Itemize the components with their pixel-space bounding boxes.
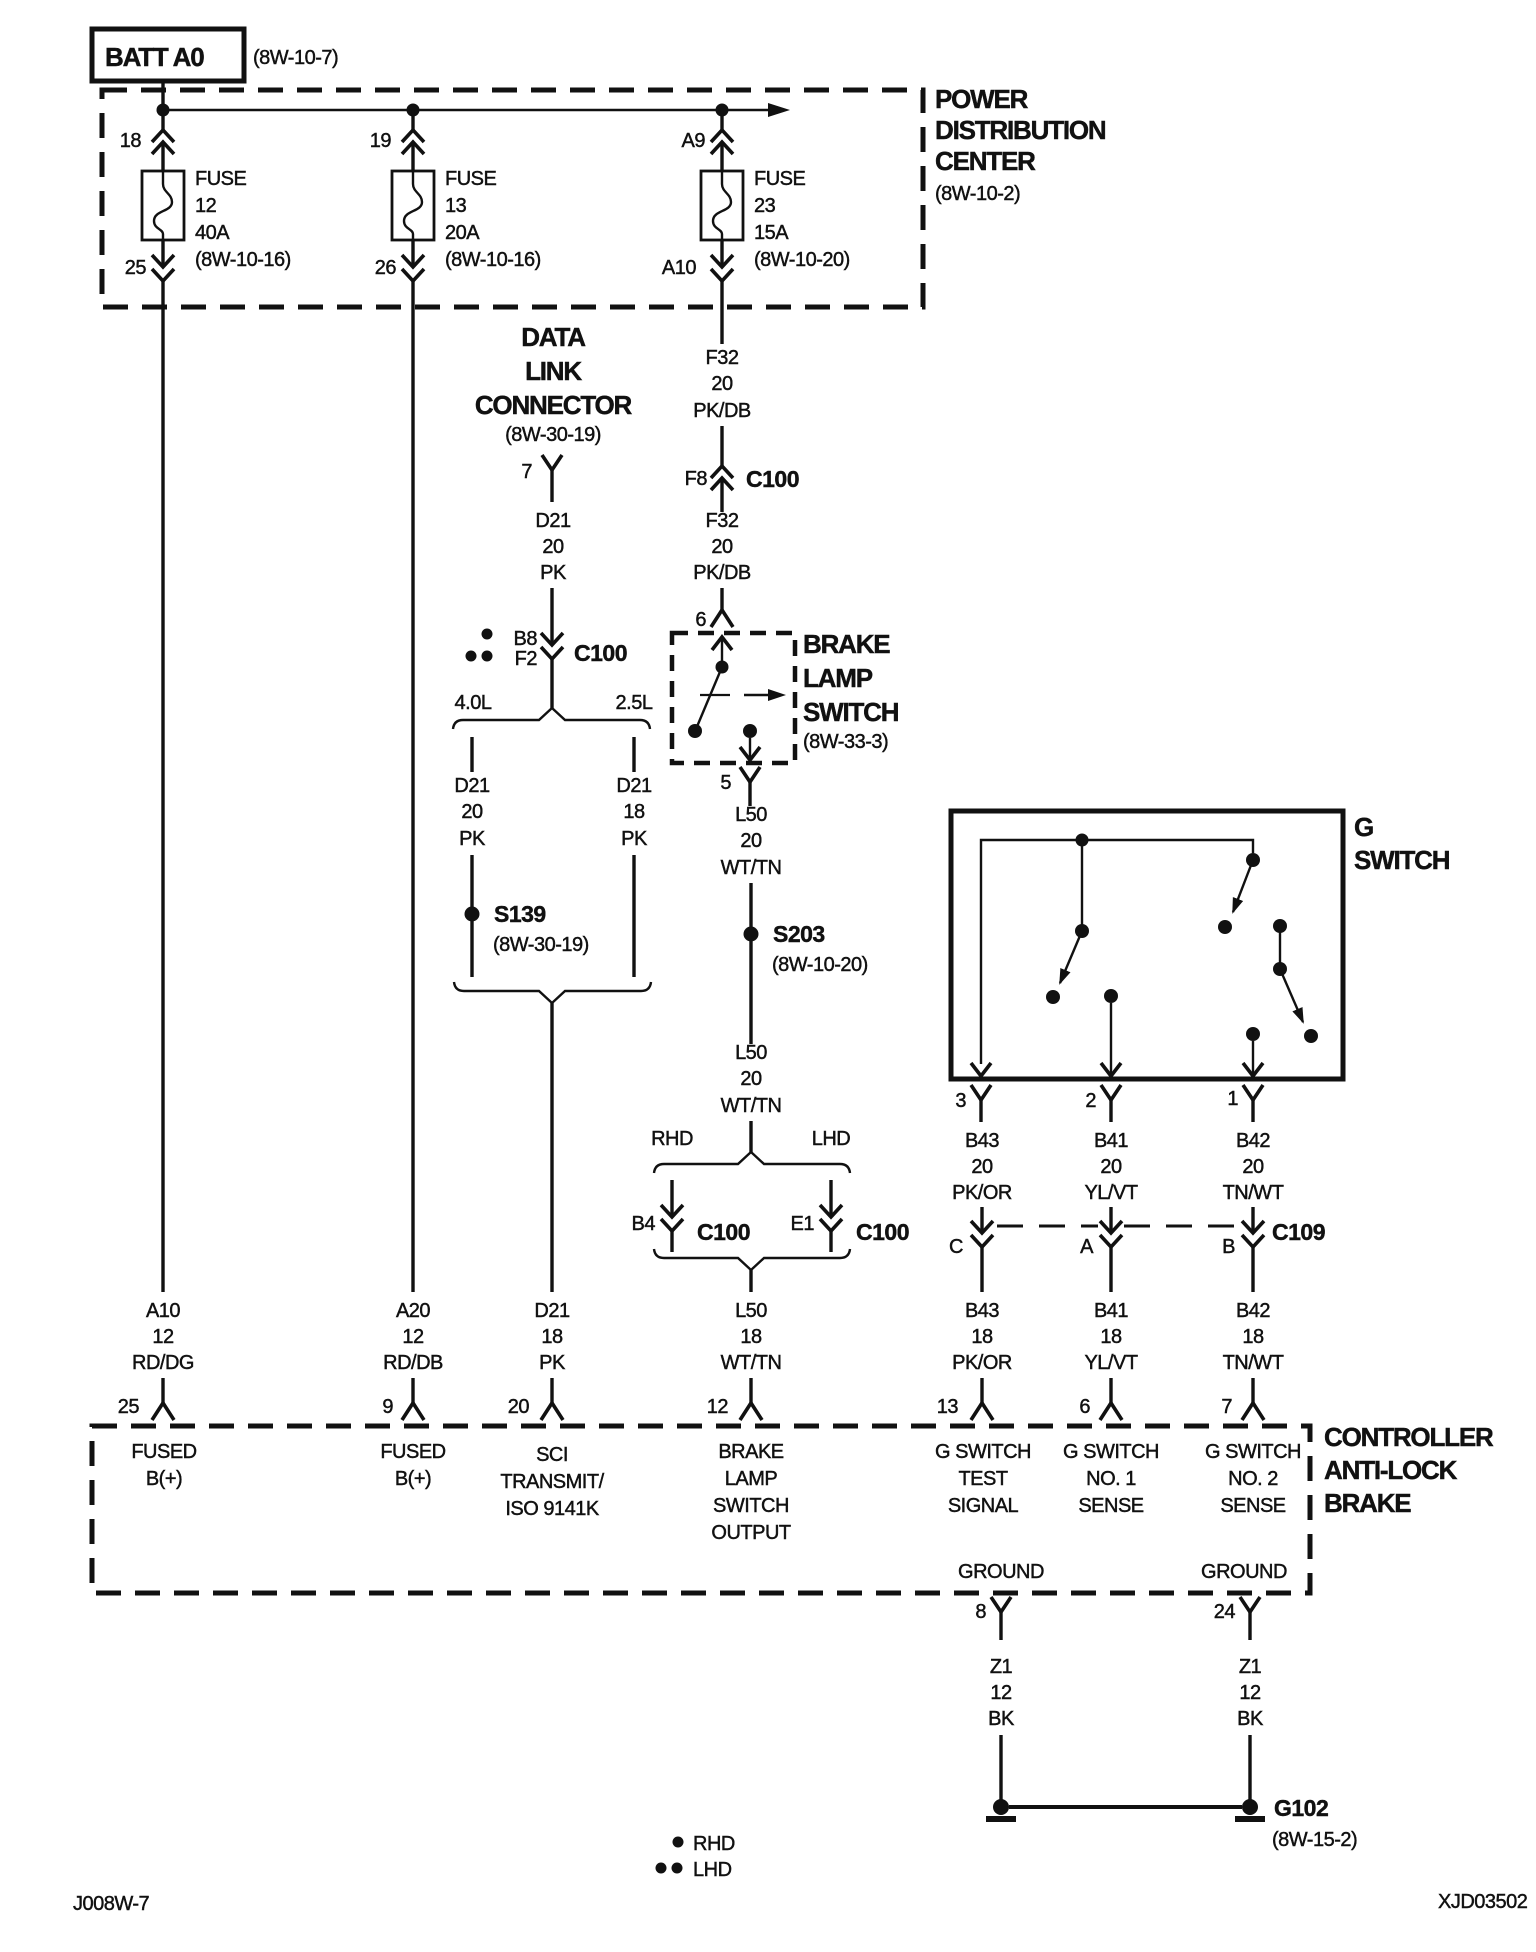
svg-text:B41: B41 — [1094, 1130, 1128, 1152]
wire label D21 18 PK (2.5L) — [616, 775, 652, 850]
junction node at fuse 12 — [157, 104, 170, 117]
G switch internal bus wire — [981, 840, 1253, 1064]
svg-text:2: 2 — [1085, 1090, 1096, 1112]
RHD/LHD merge brace — [654, 1249, 850, 1270]
splice S139 — [465, 901, 589, 956]
switch 2 blade arrow — [1233, 860, 1253, 912]
pin function fused B(+) col 2 — [380, 1441, 445, 1490]
wire label D21 20 PK — [535, 510, 571, 584]
wire — [720, 478, 723, 512]
svg-text:PK: PK — [621, 828, 648, 850]
RHD/LHD split brace — [654, 1152, 850, 1173]
brake lamp switch pin 6 — [695, 609, 733, 631]
svg-text:20A: 20A — [445, 222, 480, 244]
svg-text:WT/TN: WT/TN — [721, 857, 782, 879]
svg-text:NO. 1: NO. 1 — [1086, 1468, 1136, 1490]
svg-text:CONTROLLER: CONTROLLER — [1324, 1422, 1494, 1452]
wire to pin 2 — [1101, 1003, 1121, 1076]
wire — [980, 1247, 983, 1292]
CONTROLLER ANTI-LOCK BRAKE label — [1324, 1422, 1494, 1518]
wire — [749, 883, 752, 927]
wire — [411, 142, 414, 171]
controller pin 13 — [937, 1396, 993, 1420]
svg-text:BRAKE: BRAKE — [803, 629, 890, 659]
svg-text:5: 5 — [720, 772, 731, 794]
svg-text:15A: 15A — [754, 222, 789, 244]
G switch box — [951, 811, 1343, 1079]
brake lamp switch dashed box — [672, 633, 795, 763]
switch common contact — [716, 661, 729, 674]
G switch pin 3 — [955, 1085, 991, 1122]
svg-text:(8W-15-2): (8W-15-2) — [1272, 1829, 1357, 1851]
svg-text:7: 7 — [1221, 1396, 1232, 1418]
svg-text:G SWITCH: G SWITCH — [1205, 1441, 1301, 1463]
wire — [1081, 840, 1083, 931]
svg-text:RHD: RHD — [651, 1128, 693, 1150]
svg-text:18: 18 — [1242, 1326, 1264, 1348]
switch actuation arrow — [744, 689, 786, 701]
svg-text:23: 23 — [754, 195, 776, 217]
svg-text:25: 25 — [118, 1396, 140, 1418]
svg-text:LHD: LHD — [812, 1128, 851, 1150]
svg-text:18: 18 — [1100, 1326, 1122, 1348]
pin function G switch no.2 sense — [1205, 1441, 1301, 1517]
junction node at fuse 23 — [716, 104, 729, 117]
svg-text:12: 12 — [402, 1326, 424, 1348]
svg-text:18: 18 — [740, 1326, 762, 1348]
svg-text:CENTER: CENTER — [935, 146, 1036, 176]
wire fused B(+) column 2 — [411, 281, 414, 1292]
svg-text:(8W-10-16): (8W-10-16) — [195, 249, 291, 271]
power distribution center dashed box — [102, 90, 923, 307]
wire — [749, 941, 752, 1044]
controller pin 12 — [707, 1396, 762, 1420]
svg-text:A20: A20 — [396, 1300, 430, 1322]
svg-text:FUSE: FUSE — [445, 168, 497, 190]
DLC pin 7 — [521, 455, 562, 502]
wire — [749, 1121, 752, 1152]
svg-text:BATT A0: BATT A0 — [105, 42, 204, 72]
svg-text:B(+): B(+) — [395, 1468, 431, 1490]
wire label F32 20 PK/DB (lower) — [693, 510, 751, 584]
svg-text:C109: C109 — [1272, 1219, 1325, 1245]
wire 2.5L branch — [632, 737, 635, 772]
junction node in G switch — [1076, 834, 1089, 847]
wire label B42 18 TN/WT — [1223, 1300, 1284, 1374]
engine merge brace — [454, 982, 651, 1003]
svg-text:(8W-33-3): (8W-33-3) — [803, 731, 888, 753]
svg-text:PK/DB: PK/DB — [693, 400, 751, 422]
wire label B41 20 YL/VT — [1084, 1130, 1137, 1204]
svg-text:L50: L50 — [735, 1042, 767, 1064]
wire to pin 1 — [1243, 1041, 1263, 1076]
engine split brace — [453, 708, 650, 729]
svg-text:A: A — [1080, 1236, 1094, 1258]
svg-text:13: 13 — [937, 1396, 959, 1418]
svg-text:C100: C100 — [574, 640, 627, 666]
svg-text:B42: B42 — [1236, 1130, 1270, 1152]
controller pin 6 — [1079, 1396, 1122, 1420]
svg-text:18: 18 — [971, 1326, 993, 1348]
svg-text:18: 18 — [541, 1326, 563, 1348]
wire — [720, 588, 723, 610]
svg-text:BK: BK — [1237, 1708, 1264, 1730]
svg-text:PK/OR: PK/OR — [952, 1182, 1012, 1204]
connector C100 pins B8/F2 — [514, 628, 627, 670]
connector C109 pin C — [949, 1221, 993, 1258]
svg-text:3: 3 — [955, 1090, 966, 1112]
svg-text:SENSE: SENSE — [1220, 1495, 1285, 1517]
fuse 13 label — [445, 168, 541, 271]
wire LHD branch — [829, 1180, 832, 1217]
G SWITCH label — [1354, 812, 1450, 875]
switch 3 blade arrow — [1280, 969, 1303, 1022]
svg-text:LAMP: LAMP — [803, 663, 873, 693]
wire — [411, 1378, 414, 1403]
svg-text:25: 25 — [125, 257, 147, 279]
connector C109 pin A — [1080, 1221, 1122, 1258]
splice S203 — [744, 921, 868, 976]
svg-text:L50: L50 — [735, 804, 767, 826]
svg-text:B41: B41 — [1094, 1300, 1128, 1322]
svg-text:PK: PK — [540, 562, 567, 584]
wire — [1251, 1247, 1254, 1292]
svg-text:A10: A10 — [662, 257, 696, 279]
svg-text:G SWITCH: G SWITCH — [1063, 1441, 1159, 1463]
fuse 12 label — [195, 168, 291, 271]
svg-text:13: 13 — [445, 195, 467, 217]
svg-text:YL/VT: YL/VT — [1084, 1352, 1137, 1374]
svg-text:20: 20 — [1242, 1156, 1264, 1178]
fuse 13 — [392, 171, 434, 240]
controller pin 7 — [1221, 1396, 1264, 1420]
svg-text:ISO 9141K: ISO 9141K — [505, 1498, 600, 1520]
wire label L50 20 WT/TN — [721, 804, 782, 879]
svg-text:C: C — [949, 1236, 963, 1258]
switch 1 contact — [1046, 990, 1060, 1004]
svg-text:LAMP: LAMP — [725, 1468, 778, 1490]
no.1 sense contact — [1104, 989, 1118, 1003]
RHD marker dot for B8 — [482, 629, 493, 640]
switch 3 contact — [1304, 1029, 1318, 1043]
fuse 12 — [142, 171, 184, 240]
svg-text:FUSE: FUSE — [754, 168, 806, 190]
svg-text:LINK: LINK — [525, 356, 582, 386]
svg-text:LHD: LHD — [693, 1859, 732, 1881]
wire from bus to pin 19 — [411, 110, 414, 130]
svg-text:C100: C100 — [746, 466, 799, 492]
connector pin 19 — [370, 130, 424, 154]
svg-text:CONNECTOR: CONNECTOR — [475, 390, 633, 420]
svg-text:BRAKE: BRAKE — [718, 1441, 783, 1463]
svg-text:G SWITCH: G SWITCH — [935, 1441, 1031, 1463]
svg-text:(8W-10-16): (8W-10-16) — [445, 249, 541, 271]
connector pin 25 — [125, 255, 174, 281]
svg-text:F32: F32 — [706, 347, 739, 369]
switch contact lower left — [688, 724, 702, 738]
svg-text:FUSE: FUSE — [195, 168, 247, 190]
svg-text:PK/OR: PK/OR — [952, 1352, 1012, 1374]
BATT A0 feed box — [92, 29, 244, 81]
svg-text:B43: B43 — [965, 1130, 999, 1152]
switch 3 pivot contact — [1273, 962, 1287, 976]
wire — [1251, 1207, 1254, 1233]
wire SCI column — [550, 1003, 553, 1292]
wire — [1279, 926, 1281, 969]
svg-text:12: 12 — [195, 195, 217, 217]
switch 3 fixed contact — [1273, 919, 1287, 933]
svg-text:TN/WT: TN/WT — [1223, 1182, 1284, 1204]
svg-text:TN/WT: TN/WT — [1223, 1352, 1284, 1374]
bus wire across PDC with arrow — [163, 103, 790, 117]
wire — [632, 855, 635, 977]
svg-text:6: 6 — [695, 609, 706, 631]
G switch pin 1 — [1227, 1085, 1263, 1122]
brake lamp switch pin 5 — [720, 767, 760, 806]
switch 2 contact — [1218, 920, 1232, 934]
svg-text:D21: D21 — [535, 510, 571, 532]
svg-text:19: 19 — [370, 130, 392, 152]
svg-text:20: 20 — [711, 536, 733, 558]
svg-text:S139: S139 — [494, 901, 546, 927]
no.2 sense contact — [1246, 1027, 1260, 1041]
wire label D21 18 PK — [534, 1300, 570, 1374]
svg-text:WT/TN: WT/TN — [721, 1095, 782, 1117]
svg-text:BRAKE: BRAKE — [1324, 1488, 1411, 1518]
pin function fused B(+) col 1 — [131, 1441, 196, 1490]
svg-text:E1: E1 — [791, 1213, 815, 1235]
connector pin A9 — [682, 130, 733, 154]
wire — [749, 1270, 752, 1292]
POWER DISTRIBUTION CENTER label — [935, 84, 1106, 205]
pin function SCI transmit — [500, 1444, 604, 1520]
svg-text:26: 26 — [375, 257, 397, 279]
svg-text:G102: G102 — [1274, 1795, 1328, 1821]
C109 harness dashed line — [997, 1225, 1240, 1228]
legend RHD marker — [673, 1833, 735, 1855]
wire — [470, 855, 473, 907]
svg-text:OUTPUT: OUTPUT — [711, 1522, 791, 1544]
wire — [720, 142, 723, 171]
svg-text:24: 24 — [1214, 1601, 1236, 1623]
svg-text:NO. 2: NO. 2 — [1228, 1468, 1278, 1490]
connector C100 pin E1 — [791, 1205, 909, 1252]
svg-text:20: 20 — [508, 1396, 530, 1418]
switch input arrow into box — [712, 637, 732, 666]
wire — [550, 1378, 553, 1403]
svg-text:B42: B42 — [1236, 1300, 1270, 1322]
wire RHD branch — [670, 1180, 673, 1217]
svg-text:POWER: POWER — [935, 84, 1029, 114]
svg-text:9: 9 — [382, 1396, 393, 1418]
svg-text:F32: F32 — [706, 510, 739, 532]
ground G102 — [986, 1795, 1357, 1851]
svg-text:Z1: Z1 — [1239, 1656, 1262, 1678]
svg-text:8: 8 — [975, 1601, 986, 1623]
wire — [749, 1378, 752, 1403]
svg-text:20: 20 — [971, 1156, 993, 1178]
svg-text:FUSED: FUSED — [380, 1441, 445, 1463]
G switch pin 2 — [1085, 1085, 1121, 1122]
switch 2 fixed contact — [1246, 853, 1260, 867]
controller pin 8 — [975, 1597, 1011, 1640]
svg-text:B(+): B(+) — [146, 1468, 182, 1490]
wire label F32 20 PK/DB — [693, 347, 751, 422]
wire — [1109, 1378, 1112, 1403]
svg-text:J008W-7: J008W-7 — [73, 1893, 150, 1915]
connector pin 18 — [120, 130, 174, 154]
svg-text:G: G — [1354, 812, 1373, 842]
wire label A20 12 RD/DB — [383, 1300, 443, 1374]
wire fused B(+) column 1 — [161, 281, 164, 1292]
svg-text:C100: C100 — [697, 1219, 750, 1245]
svg-text:RHD: RHD — [693, 1833, 735, 1855]
svg-text:DATA: DATA — [521, 322, 586, 352]
wire — [720, 426, 723, 466]
svg-text:20: 20 — [740, 1068, 762, 1090]
svg-text:D21: D21 — [534, 1300, 570, 1322]
wire — [550, 588, 553, 645]
svg-text:F2: F2 — [515, 648, 538, 670]
controller anti-lock brake dashed box — [92, 1426, 1310, 1593]
svg-text:18: 18 — [623, 801, 645, 823]
svg-text:RD/DB: RD/DB — [383, 1352, 443, 1374]
svg-text:B4: B4 — [632, 1213, 656, 1235]
wire from BATT A0 into PDC — [161, 81, 164, 130]
controller pin 20 — [508, 1396, 563, 1420]
svg-text:L50: L50 — [735, 1300, 767, 1322]
svg-text:BK: BK — [988, 1708, 1015, 1730]
pin function G switch no.1 sense — [1063, 1441, 1159, 1517]
fuse 23 label — [754, 168, 850, 271]
svg-text:PK: PK — [539, 1352, 566, 1374]
svg-text:TEST: TEST — [958, 1468, 1007, 1490]
wire — [1109, 1207, 1112, 1233]
svg-text:7: 7 — [521, 461, 532, 483]
svg-text:(8W-10-20): (8W-10-20) — [772, 954, 868, 976]
svg-text:18: 18 — [120, 130, 142, 152]
pin function brake lamp switch output — [711, 1441, 791, 1544]
svg-text:20: 20 — [1100, 1156, 1122, 1178]
wire label B42 20 TN/WT — [1223, 1130, 1284, 1204]
svg-text:SWITCH: SWITCH — [713, 1495, 789, 1517]
wire — [161, 1378, 164, 1403]
svg-text:12: 12 — [707, 1396, 729, 1418]
connector pin A10 — [662, 255, 733, 281]
BRAKE LAMP SWITCH label — [803, 629, 899, 753]
LHD marker dots for F2 — [466, 651, 493, 662]
svg-text:12: 12 — [990, 1682, 1012, 1704]
controller pin 25 — [118, 1396, 174, 1420]
wire label L50 18 WT/TN — [721, 1300, 782, 1374]
wire — [999, 1735, 1002, 1801]
connector pin 26 — [375, 255, 424, 281]
svg-text:2.5L: 2.5L — [616, 692, 653, 714]
svg-text:6: 6 — [1079, 1396, 1090, 1418]
wire 4.0L branch — [470, 737, 473, 772]
svg-text:SCI: SCI — [536, 1444, 568, 1466]
fuse 23 — [701, 171, 743, 240]
wire — [980, 1378, 983, 1403]
controller pin 24 — [1214, 1597, 1260, 1640]
svg-text:A10: A10 — [146, 1300, 180, 1322]
wire — [470, 921, 473, 977]
test signal arrow to pin 3 — [971, 1063, 991, 1076]
wire — [1109, 1247, 1112, 1292]
junction node at fuse 13 — [407, 104, 420, 117]
svg-text:A9: A9 — [682, 130, 706, 152]
svg-text:(8W-10-7): (8W-10-7) — [253, 47, 338, 69]
wire label Z1 12 BK (left) — [988, 1656, 1015, 1730]
svg-text:B8: B8 — [514, 628, 538, 650]
controller pin 9 — [382, 1396, 424, 1420]
wire — [720, 240, 723, 267]
pin function G switch test signal — [935, 1441, 1031, 1517]
svg-text:GROUND: GROUND — [1201, 1561, 1287, 1583]
wire — [161, 142, 164, 171]
svg-text:C100: C100 — [856, 1219, 909, 1245]
wire — [161, 240, 164, 267]
switch output contact — [740, 724, 760, 760]
svg-text:RD/DG: RD/DG — [132, 1352, 194, 1374]
svg-text:40A: 40A — [195, 222, 230, 244]
svg-text:(8W-10-20): (8W-10-20) — [754, 249, 850, 271]
switch mid tick — [700, 694, 730, 696]
wire label L50 20 WT/TN (lower) — [721, 1042, 782, 1117]
wire from bus to pin A9 — [720, 110, 723, 130]
legend LHD marker — [656, 1859, 732, 1881]
svg-text:(8W-30-19): (8W-30-19) — [505, 424, 601, 446]
wire label B43 20 PK/OR — [952, 1130, 1012, 1204]
svg-text:YL/VT: YL/VT — [1084, 1182, 1137, 1204]
svg-text:DISTRIBUTION: DISTRIBUTION — [935, 115, 1106, 145]
svg-text:F8: F8 — [685, 468, 708, 490]
svg-text:20: 20 — [740, 830, 762, 852]
svg-text:1: 1 — [1227, 1088, 1238, 1110]
svg-text:20: 20 — [542, 536, 564, 558]
svg-text:(8W-10-2): (8W-10-2) — [935, 183, 1020, 205]
svg-text:20: 20 — [461, 801, 483, 823]
wire — [1248, 1735, 1251, 1801]
svg-text:SWITCH: SWITCH — [803, 697, 899, 727]
DATA LINK CONNECTOR label — [475, 322, 633, 446]
svg-text:SWITCH: SWITCH — [1354, 845, 1450, 875]
svg-text:TRANSMIT/: TRANSMIT/ — [500, 1471, 604, 1493]
connector C109 pin B — [1222, 1219, 1325, 1258]
wire — [550, 659, 553, 708]
svg-text:PK/DB: PK/DB — [693, 562, 751, 584]
svg-text:SIGNAL: SIGNAL — [948, 1495, 1019, 1517]
svg-text:FUSED: FUSED — [131, 1441, 196, 1463]
svg-text:S203: S203 — [773, 921, 825, 947]
svg-text:XJD03502: XJD03502 — [1438, 1891, 1528, 1913]
svg-text:D21: D21 — [454, 775, 490, 797]
wire — [980, 1207, 983, 1233]
svg-text:20: 20 — [711, 373, 733, 395]
connector C100 pin F8 — [685, 466, 799, 492]
svg-text:B: B — [1222, 1236, 1235, 1258]
svg-text:B43: B43 — [965, 1300, 999, 1322]
wire label B41 18 YL/VT — [1084, 1300, 1137, 1374]
svg-text:4.0L: 4.0L — [455, 692, 492, 714]
svg-text:Z1: Z1 — [990, 1656, 1013, 1678]
wire label A10 12 RD/DG — [132, 1300, 194, 1374]
svg-text:12: 12 — [152, 1326, 174, 1348]
wire label D21 20 PK (4.0L) — [454, 775, 490, 850]
wire label Z1 12 BK (right) — [1237, 1656, 1264, 1730]
svg-text:(8W-30-19): (8W-30-19) — [493, 934, 589, 956]
wire — [1251, 1378, 1254, 1403]
